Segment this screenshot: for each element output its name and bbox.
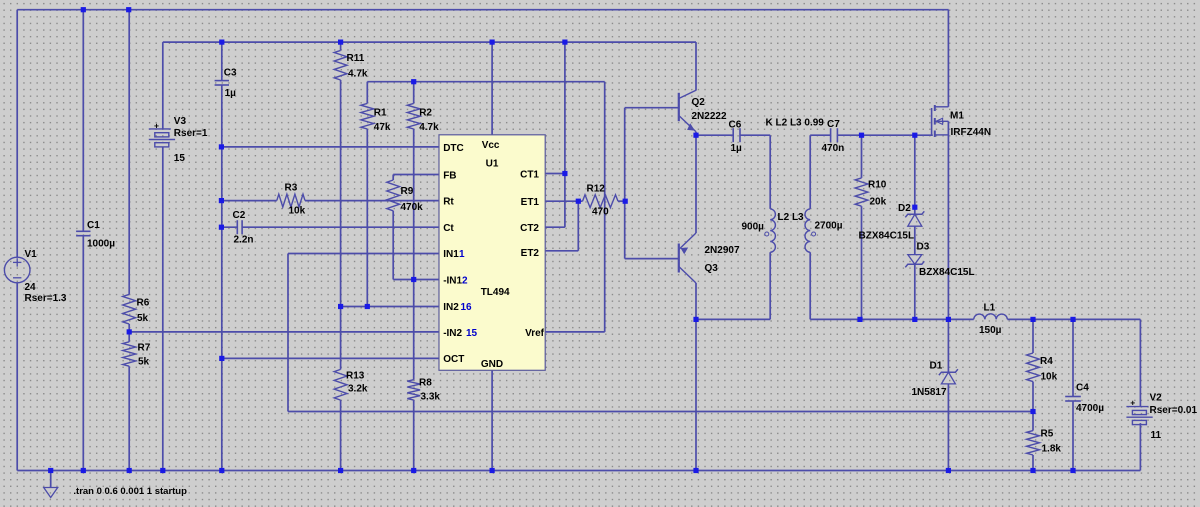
wire Ct row left of C2 <box>221 226 237 228</box>
svg-text:IN216: IN216 <box>443 302 472 313</box>
svg-text:3.2k: 3.2k <box>348 383 368 394</box>
wire Q3 collector column <box>695 283 697 471</box>
svg-text:Q3: Q3 <box>705 263 719 274</box>
wire L3 top column <box>809 135 811 209</box>
resistor R6 <box>123 294 136 324</box>
wire R12 right lead <box>618 200 625 202</box>
ground symbol <box>44 488 58 498</box>
svg-text:3.3k: 3.3k <box>421 392 441 403</box>
node junction C6/Q2 emitter <box>693 133 698 138</box>
svg-text:900µ: 900µ <box>742 222 765 233</box>
nmos M1 IRFZ44N <box>931 108 933 135</box>
svg-text:Vref: Vref <box>525 328 545 339</box>
svg-text:1.8k: 1.8k <box>1042 444 1062 455</box>
svg-text:D1: D1 <box>930 361 943 372</box>
svg-text:BZX84C15L: BZX84C15L <box>859 231 915 242</box>
wire L2 bottom column <box>769 252 771 319</box>
resistor R1 <box>361 103 374 129</box>
wire ground stem <box>50 471 52 488</box>
svg-text:V2: V2 <box>1150 393 1163 404</box>
svg-text:1µ: 1µ <box>225 88 237 99</box>
wire OCT row <box>222 357 439 359</box>
svg-text:R7: R7 <box>138 343 151 354</box>
svg-text:+: + <box>1130 397 1135 407</box>
svg-text:R6: R6 <box>137 298 150 309</box>
wire Ct row right of C2 <box>242 226 439 228</box>
wire feedback row <box>288 411 1033 413</box>
svg-text:V3: V3 <box>174 116 187 127</box>
node junction R2 top <box>411 79 416 84</box>
wire -IN2 row <box>129 331 439 333</box>
op-amp U1 TL494 body <box>439 135 545 370</box>
wire V3 column <box>162 42 164 129</box>
svg-text:TL494: TL494 <box>481 287 510 298</box>
wire Q2 base row <box>625 107 679 109</box>
svg-text:GND: GND <box>481 359 503 370</box>
svg-text:R8: R8 <box>419 377 432 388</box>
svg-text:R9: R9 <box>401 186 414 197</box>
svg-text:D2: D2 <box>898 203 911 214</box>
resistor R10 <box>855 178 868 206</box>
node junctions transformer secondary row <box>857 317 862 322</box>
svg-text:CT2: CT2 <box>520 223 539 234</box>
voltage source V1 <box>4 257 30 283</box>
svg-text:R11: R11 <box>347 53 365 64</box>
svg-text:K L2 L3 0.99: K L2 L3 0.99 <box>766 118 825 129</box>
svg-text:Rt: Rt <box>443 197 454 208</box>
wire row FB/Vref link <box>367 81 604 83</box>
wire Q3 emitter column <box>695 135 697 233</box>
svg-text:-IN12: -IN12 <box>443 275 468 286</box>
wire C6 row right <box>740 134 770 136</box>
wire DTC row <box>221 146 439 148</box>
wire R9 column <box>392 175 394 181</box>
wire ET2 column <box>577 201 579 251</box>
wire L2 bottom row <box>696 318 770 320</box>
svg-text:R10: R10 <box>868 180 887 191</box>
svg-text:R4: R4 <box>1040 356 1053 367</box>
wire R11/R13 column <box>340 42 342 50</box>
capacitor C2 <box>236 220 238 234</box>
svg-text:OCT: OCT <box>443 354 464 365</box>
svg-text:ET2: ET2 <box>521 248 540 259</box>
wire Vref row <box>545 331 605 333</box>
wire CT2 row <box>545 226 565 228</box>
wire V1 column <box>16 10 18 258</box>
resistor R5 <box>1027 431 1040 455</box>
wire C6 row left <box>696 134 733 136</box>
svg-text:-IN215: -IN215 <box>443 328 477 339</box>
wire -IN1 row <box>393 279 439 281</box>
capacitor C1 <box>76 230 90 232</box>
inductor L2 <box>770 209 775 252</box>
svg-text:ET1: ET1 <box>521 197 540 208</box>
wire C7/gate row <box>837 134 932 136</box>
capacitor C3 <box>215 80 229 82</box>
svg-text:Rser=1.3: Rser=1.3 <box>25 293 67 304</box>
svg-text:Rser=1: Rser=1 <box>174 128 208 139</box>
svg-text:R5: R5 <box>1041 429 1054 440</box>
transistor Q3 2N2907 <box>678 244 680 273</box>
svg-text:11: 11 <box>1151 430 1162 441</box>
node junction R4/R5 feedback <box>1030 409 1035 414</box>
wire Q2 emitter stub <box>695 132 697 135</box>
svg-text:Rser=0.01: Rser=0.01 <box>1150 405 1198 416</box>
svg-text:4.7k: 4.7k <box>419 122 439 133</box>
svg-text:2700µ: 2700µ <box>815 221 843 232</box>
svg-text:R12: R12 <box>587 184 606 195</box>
svg-text:10k: 10k <box>1041 372 1058 383</box>
svg-text:C2: C2 <box>233 210 246 221</box>
wire R2/R8 column <box>413 82 415 104</box>
resistor R8 <box>407 380 420 400</box>
wire L3 bottom column <box>809 252 811 319</box>
wire FB row <box>393 174 439 176</box>
svg-text:R1: R1 <box>374 107 387 118</box>
wire R1 column <box>366 82 368 104</box>
wire top rail V+ (24V) <box>17 9 948 11</box>
wire ET2 row <box>545 250 578 252</box>
wire D1 column <box>947 319 949 372</box>
wire ET1 row <box>545 200 582 202</box>
capacitor C7 <box>830 128 832 142</box>
resistor R2 <box>407 103 420 129</box>
capacitor C6 <box>732 128 734 142</box>
svg-text:IN11: IN11 <box>443 249 465 260</box>
wire Rt row right of R3 <box>305 200 439 202</box>
svg-text:1µ: 1µ <box>731 143 743 154</box>
svg-text:Ct: Ct <box>443 223 454 234</box>
zener diode D3 BZX84C15L <box>908 255 922 265</box>
wire C1 column <box>82 10 84 232</box>
svg-text:2.2n: 2.2n <box>234 234 254 245</box>
node junctions C3 column <box>219 144 224 149</box>
svg-text:1N5817: 1N5817 <box>912 387 947 398</box>
resistor R7 <box>123 342 136 366</box>
svg-text:4700µ: 4700µ <box>1076 403 1104 414</box>
node junction R6/R7 divider <box>127 329 132 334</box>
wire IN1 row <box>288 253 439 255</box>
svg-text:BZX84C15L: BZX84C15L <box>919 267 975 278</box>
svg-text:R13: R13 <box>346 370 365 381</box>
node junctions R12 <box>576 199 581 204</box>
wire Vcc column <box>491 42 493 135</box>
wire R4/R5 column <box>1032 319 1034 353</box>
svg-text:1000µ: 1000µ <box>87 239 115 250</box>
svg-text:Vcc: Vcc <box>482 140 500 151</box>
node junctions bottom rail <box>48 468 53 473</box>
battery V3 <box>149 128 171 130</box>
wire R10 column <box>861 135 863 178</box>
resistor R4 <box>1027 353 1040 382</box>
wire base column <box>624 108 626 259</box>
svg-text:R2: R2 <box>419 107 432 118</box>
svg-text:IRFZ44N: IRFZ44N <box>951 127 992 138</box>
wire R6/R7 column <box>128 10 130 295</box>
node junction D2 top <box>912 205 917 210</box>
wire C7 row left <box>810 134 830 136</box>
svg-text:FB: FB <box>443 170 456 181</box>
wire output row right of L1 <box>1007 318 1140 320</box>
wire CT1 row <box>545 173 565 175</box>
wire M1 source column <box>947 121 949 319</box>
svg-text:20k: 20k <box>870 197 887 208</box>
inductor L1 <box>974 314 1008 320</box>
wire IN1 column <box>287 254 289 412</box>
wire C4 column <box>1072 319 1074 396</box>
svg-text:Q2: Q2 <box>692 97 706 108</box>
wire GND column <box>491 370 493 470</box>
node junction Q3 collector / L2 return <box>693 317 698 322</box>
svg-text:470: 470 <box>592 207 609 218</box>
node junction CT1 <box>562 171 567 176</box>
node junction -IN1 row <box>411 277 416 282</box>
wire V2 column <box>1139 319 1141 406</box>
wire M1 drain column <box>947 10 949 107</box>
zener diode D2 BZX84C15L <box>908 214 922 226</box>
svg-text:R3: R3 <box>285 183 298 194</box>
wire second rail (15V) <box>163 41 696 43</box>
svg-text:C6: C6 <box>729 120 742 131</box>
resistor R13 <box>334 369 347 400</box>
node junctions second rail <box>219 40 224 45</box>
node junctions gate row <box>859 133 864 138</box>
resistor R9 <box>387 180 400 211</box>
svg-text:C7: C7 <box>827 119 840 130</box>
svg-text:470n: 470n <box>822 143 845 154</box>
wire D2/D3 column <box>914 135 916 214</box>
wire bottom ground rail <box>17 470 1140 472</box>
svg-text:.tran 0 0.6 0.001 1 startup: .tran 0 0.6 0.001 1 startup <box>73 486 187 497</box>
svg-text:D3: D3 <box>917 241 930 252</box>
svg-text:+: + <box>154 120 159 130</box>
svg-text:5k: 5k <box>138 357 150 368</box>
svg-text:5k: 5k <box>137 313 149 324</box>
svg-text:DTC: DTC <box>443 143 464 154</box>
svg-text:2N2907: 2N2907 <box>705 245 740 256</box>
svg-text:470k: 470k <box>401 202 424 213</box>
svg-text:150µ: 150µ <box>979 325 1002 336</box>
svg-text:U1: U1 <box>486 159 499 170</box>
svg-text:M1: M1 <box>950 111 964 122</box>
wire Q2 collector column <box>695 42 697 90</box>
svg-text:C4: C4 <box>1076 382 1089 393</box>
battery V2 <box>1126 406 1148 408</box>
transistor Q2 2N2222 <box>678 93 680 121</box>
svg-text:L2 L3: L2 L3 <box>778 212 805 223</box>
svg-text:4.7k: 4.7k <box>348 69 368 80</box>
capacitor C4 <box>1065 396 1081 398</box>
svg-text:C1: C1 <box>87 220 100 231</box>
inductor L3 <box>805 209 810 252</box>
svg-text:CT1: CT1 <box>520 169 539 180</box>
wire IN2 row <box>341 306 439 308</box>
wire output row left of L1 <box>810 318 974 320</box>
svg-text:V1: V1 <box>25 249 38 260</box>
wire Vref column <box>604 82 606 332</box>
svg-text:15: 15 <box>174 153 186 164</box>
wire L2 top column <box>769 135 771 209</box>
svg-text:10k: 10k <box>289 205 306 216</box>
wire Q3 base row <box>625 258 679 260</box>
resistor R3 <box>277 194 305 207</box>
svg-text:C3: C3 <box>224 67 237 78</box>
svg-text:47k: 47k <box>374 122 391 133</box>
node junctions top rail <box>81 7 86 12</box>
schottky diode D1 1N5817 <box>941 372 955 384</box>
svg-text:2N2222: 2N2222 <box>692 111 727 122</box>
resistor R11 <box>334 50 347 80</box>
wire C3 column <box>221 42 223 81</box>
resistor R12 <box>583 195 619 208</box>
svg-text:24: 24 <box>25 282 37 293</box>
node junctions IN2 row <box>338 304 343 309</box>
wire CT1/CT2 column <box>564 42 566 227</box>
svg-text:L1: L1 <box>984 302 996 313</box>
wire Rt row left of R3 <box>221 200 276 202</box>
